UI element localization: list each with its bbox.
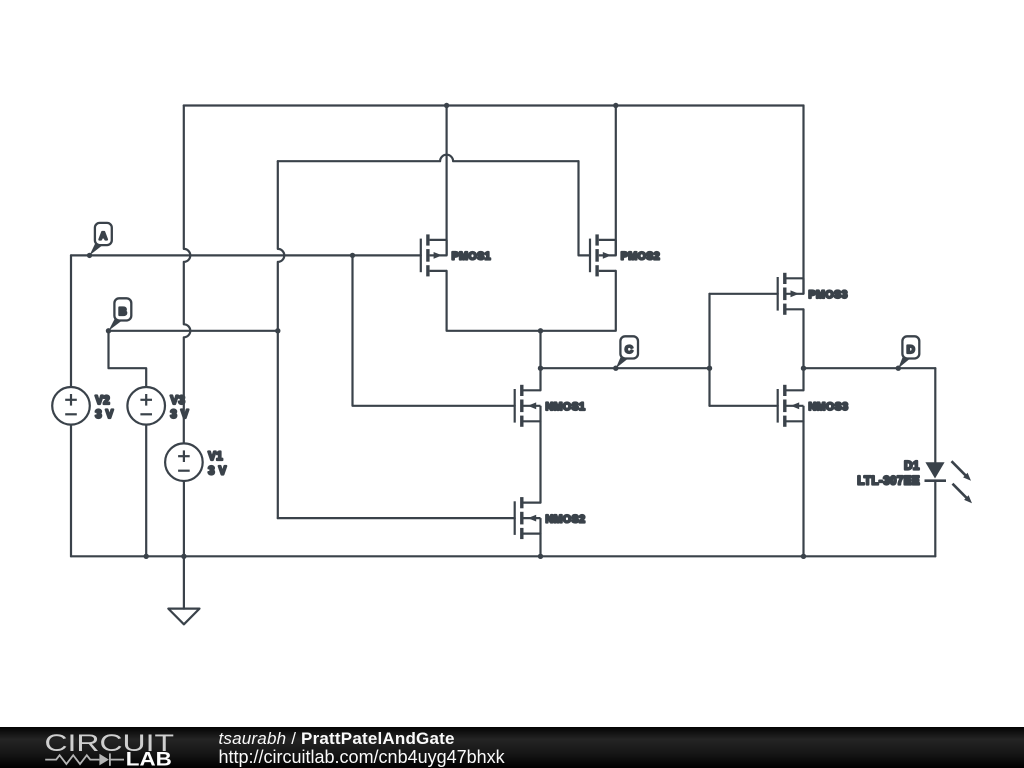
wire PMOS3 source drop (802, 106, 804, 294)
junction dot top rail / PMOS2 source (613, 103, 618, 108)
wire node B jog to V3 + (109, 331, 147, 387)
wire node B gate rail with hop over PMOS1 source drop (278, 155, 579, 161)
transistor NMOS2 (515, 497, 586, 539)
junction dot node B label attach (106, 328, 111, 333)
junction dot ground rail / NMOS3 source (801, 554, 806, 559)
transistor PMOS2 (590, 234, 660, 276)
wire node C to NMOS3 gate (710, 405, 778, 407)
junction dot node D / PMOS3-NMOS3 drains (801, 366, 806, 371)
junction dot node B wire / B vertical (275, 328, 280, 333)
junction dot node C left (538, 366, 543, 371)
wire PMOS1/PMOS2 drain bus (447, 271, 616, 331)
junction dot ground rail / NMOS2 source (538, 554, 543, 559)
node A label tag (90, 223, 112, 256)
LED D1 LTL-307EE (857, 460, 972, 503)
wire NMOS2 source to ground rail (539, 534, 541, 557)
node D label tag (898, 336, 919, 368)
svg-text:PMOS1: PMOS1 (452, 251, 491, 263)
wire NMOS2 gate lead (278, 517, 515, 519)
svg-text:LTL-307EE: LTL-307EE (857, 476, 920, 488)
svg-text:NMOS2: NMOS2 (546, 513, 586, 525)
junction dot node C riser (707, 366, 712, 371)
wire NMOS1 source to NMOS2 drain (539, 421, 541, 502)
svg-text:V3: V3 (170, 395, 185, 407)
wire LED cathode to ground rail (934, 481, 936, 557)
transistor PMOS1 (421, 234, 491, 276)
wire PMOS3 drain to NMOS3 drain (802, 309, 804, 390)
wire node C to PMOS3 gate (710, 293, 778, 295)
junction dot node A label attach (87, 253, 92, 258)
voltage source V2 (52, 387, 114, 425)
svg-text:3 V: 3 V (95, 409, 114, 421)
wire node B drop to PMOS2 gate (579, 161, 591, 255)
ground symbol stem (183, 556, 185, 608)
svg-text:A: A (99, 230, 108, 242)
wire node B vertical (gate rail to NMOS2 gate row) with hop over A (278, 161, 285, 518)
junction dot node A / NMOS1 gate drop (350, 253, 355, 258)
svg-text:NMOS3: NMOS3 (809, 401, 849, 413)
svg-text:B: B (119, 306, 128, 318)
svg-text:3 V: 3 V (208, 465, 227, 477)
junction dot drain bus / NMOS1 drain (538, 328, 543, 333)
svg-text:V2: V2 (95, 395, 110, 407)
node C label tag (616, 336, 638, 368)
junction dot top rail / PMOS1 source (444, 103, 449, 108)
wire NMOS3 source to ground rail (802, 421, 804, 556)
svg-text:LAB: LAB (126, 749, 172, 768)
wire node C horizontal (541, 367, 710, 369)
wire V1 - to ground rail (183, 481, 185, 556)
svg-text:D1: D1 (904, 460, 920, 472)
junction dot ground rail / V3 (144, 554, 149, 559)
transistor NMOS3 (778, 385, 849, 427)
wire V2 + vertical (70, 255, 72, 387)
voltage source V1 (165, 443, 227, 481)
svg-text:3 V: 3 V (170, 409, 189, 421)
wire node A horizontal (V2 + to PMOS1 gate) (71, 254, 421, 256)
svg-text:PMOS2: PMOS2 (621, 251, 660, 263)
junction dot node C label attach (613, 366, 618, 371)
wire VDD top rail (184, 104, 804, 106)
svg-text:D: D (907, 344, 916, 356)
svg-text:V1: V1 (208, 451, 223, 463)
CircuitLab logo resistor-diode squiggle (45, 753, 124, 765)
svg-text:C: C (625, 344, 634, 356)
wire node D drop to LED anode (934, 368, 936, 462)
svg-text:NMOS1: NMOS1 (546, 401, 586, 413)
svg-text:tsaurabh / PrattPatelAndGate: tsaurabh / PrattPatelAndGate (219, 729, 455, 748)
wire node A drop to NMOS1 gate (353, 255, 515, 405)
wire VDD left drop with hops over A and B (to V1 +) (184, 106, 191, 444)
wire V2 - vertical (70, 425, 72, 557)
voltage source V3 (127, 387, 189, 425)
wire PMOS2 source drop (615, 106, 617, 256)
wire V3 - vertical (145, 425, 147, 557)
transistor NMOS1 (515, 385, 586, 427)
wire node D horizontal (804, 367, 936, 369)
transistor PMOS3 (778, 273, 848, 315)
ground symbol triangle (168, 609, 199, 625)
wire node C vertical riser (708, 294, 710, 406)
svg-text:http://circuitlab.com/cnb4uyg4: http://circuitlab.com/cnb4uyg47bhxk (219, 747, 506, 767)
svg-text:PMOS3: PMOS3 (809, 289, 848, 301)
junction dot node D label attach (896, 366, 901, 371)
wire drain bus down to NMOS1 drain (539, 331, 541, 391)
wire node B horizontal (109, 330, 278, 332)
wire ground bottom rail (71, 555, 935, 557)
node B label tag (109, 298, 132, 331)
wire PMOS1 source drop (446, 106, 448, 256)
junction dot ground rail / V1 and ground symbol (181, 554, 186, 559)
